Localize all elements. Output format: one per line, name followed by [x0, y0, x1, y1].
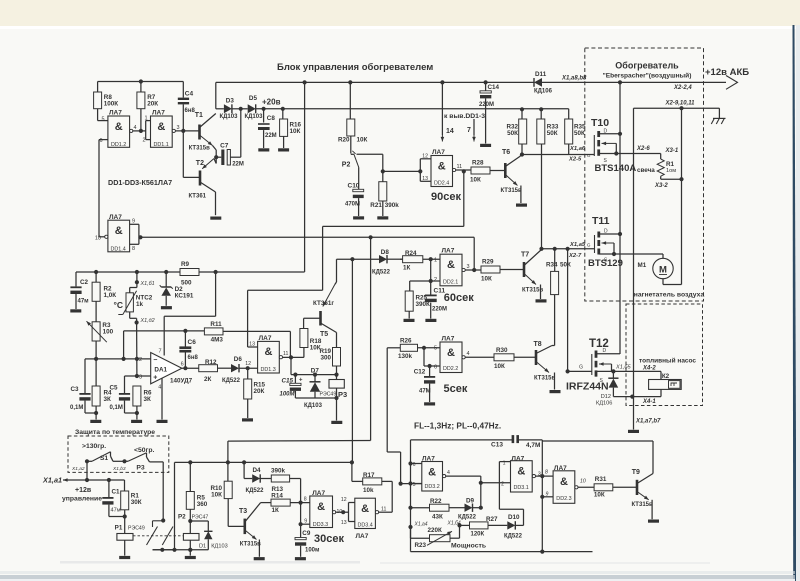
resistor R34	[554, 249, 556, 272]
wire long vertical x370	[370, 237, 372, 440]
wire T10 source line X2-6	[599, 153, 661, 155]
svg-text:1: 1	[434, 258, 437, 264]
svg-text:C3: C3	[70, 386, 79, 393]
thermistor NTC2	[136, 272, 138, 282]
svg-text:4М3: 4М3	[211, 336, 224, 343]
ground R6 C5	[131, 420, 142, 423]
wire D6 to DD1.3 pin12	[239, 367, 257, 369]
svg-text:20К: 20К	[254, 388, 265, 395]
svg-text:ЛА7: ЛА7	[356, 533, 369, 540]
wire DD1.3 output node	[283, 356, 304, 358]
heater dashed box	[585, 48, 704, 301]
svg-text:R26: R26	[400, 337, 412, 344]
svg-text:D11: D11	[535, 71, 547, 78]
svg-text:1ом: 1ом	[666, 168, 676, 174]
resistor R25	[405, 291, 413, 311]
svg-text:T8: T8	[534, 341, 542, 348]
wire long vertical x352	[351, 259, 353, 462]
svg-text:С4: С4	[185, 91, 194, 98]
svg-text:X3-1: X3-1	[665, 148, 679, 154]
resistor R19	[333, 348, 341, 367]
ground P2	[185, 556, 196, 559]
svg-text:КС191: КС191	[175, 293, 194, 300]
svg-text:13: 13	[341, 520, 347, 526]
ground C8	[258, 148, 269, 151]
svg-text:5сек: 5сек	[444, 383, 468, 395]
wire pin9 column	[300, 503, 302, 525]
svg-text:T2: T2	[196, 160, 204, 167]
svg-text:DD2.3: DD2.3	[556, 496, 571, 502]
wire x633 vertical	[633, 108, 635, 153]
svg-text:КД522: КД522	[458, 515, 477, 521]
svg-text:130k: 130k	[398, 353, 413, 360]
svg-text:X1,а4: X1,а4	[414, 522, 428, 528]
svg-text:3К: 3К	[104, 396, 112, 403]
capacitor C3	[84, 359, 86, 393]
wire S1 column	[86, 461, 88, 480]
wire node3 to T1 base	[175, 130, 199, 132]
svg-text:500: 500	[181, 280, 192, 287]
resistor R20	[349, 82, 351, 119]
capacitor C2	[75, 272, 77, 286]
capacitor C14	[485, 82, 487, 90]
wire DD3.2 out to DD3.1	[446, 475, 481, 477]
svg-text:&: &	[361, 503, 369, 515]
variable resistor R3	[95, 301, 97, 322]
capacitor C9	[300, 524, 302, 537]
svg-text:X2-2,4: X2-2,4	[673, 85, 692, 91]
svg-text:1,0К: 1,0К	[104, 292, 117, 299]
wire contact to bus	[174, 462, 176, 549]
dashed relay link P1	[133, 535, 183, 537]
ground C10	[353, 216, 364, 219]
svg-text:свеча: свеча	[637, 167, 655, 174]
svg-text:DD1.1: DD1.1	[154, 142, 169, 148]
ground x632	[628, 430, 639, 433]
svg-text:X1,а2: X1,а2	[71, 466, 85, 472]
op-amp DA1	[151, 353, 182, 384]
diode D6	[218, 367, 232, 369]
svg-text:&: &	[428, 467, 436, 479]
svg-text:К2: К2	[662, 373, 670, 380]
wire DD1.2 pin6 feedback	[98, 140, 100, 237]
resistor R14	[261, 502, 271, 504]
svg-text:+: +	[299, 377, 303, 383]
diode D4	[243, 462, 245, 478]
svg-text:нагнетатель воздуха: нагнетатель воздуха	[634, 292, 705, 299]
wire Z pin13	[247, 290, 249, 347]
svg-text:КТ315в: КТ315в	[501, 188, 522, 194]
capacitor C4	[182, 82, 184, 98]
svg-text:&: &	[317, 501, 325, 513]
svg-text:47м: 47м	[111, 508, 121, 514]
ground D2	[161, 306, 172, 309]
svg-text:11: 11	[283, 351, 288, 357]
svg-text:220М: 220М	[479, 102, 494, 108]
svg-text:R20: R20	[338, 137, 350, 144]
svg-text:20К: 20К	[147, 100, 158, 107]
wire R1 bottom to x682	[661, 178, 682, 180]
svg-text:C9: C9	[302, 530, 311, 537]
wire C15 D7 bottoms	[295, 397, 336, 399]
svg-text:R12: R12	[205, 359, 217, 366]
svg-text:D4: D4	[253, 467, 262, 474]
svg-text:IRFZ44N: IRFZ44N	[566, 381, 609, 393]
svg-text:50К: 50К	[560, 262, 571, 269]
scan noise streaks	[60, 561, 360, 564]
svg-text:1К: 1К	[272, 507, 280, 514]
svg-text:КТ315в: КТ315в	[240, 542, 261, 548]
svg-text:2: 2	[142, 138, 145, 144]
wire emitters node	[213, 146, 217, 151]
svg-text:50К: 50К	[574, 130, 585, 137]
svg-text:10К: 10К	[494, 363, 505, 370]
pump dashed box	[626, 304, 703, 406]
bottom page edge smudge	[0, 575, 795, 579]
svg-text:10k: 10k	[363, 487, 374, 494]
gate DD2.1 output to R29	[462, 268, 465, 271]
svg-text:X3-2: X3-2	[654, 183, 668, 189]
wire x682 vertical	[681, 108, 683, 284]
svg-text:22М: 22М	[265, 133, 277, 139]
svg-text:&: &	[115, 225, 123, 237]
svg-text:DD3.1: DD3.1	[514, 485, 529, 491]
svg-text:X1,а6: X1,а6	[569, 146, 586, 152]
svg-text:4,7М: 4,7М	[526, 442, 540, 449]
svg-text:10К: 10К	[481, 276, 492, 283]
svg-text:D9: D9	[466, 498, 475, 505]
svg-text:КД103: КД103	[211, 544, 227, 550]
wire R11 node line	[124, 330, 205, 332]
ground C9	[295, 557, 306, 560]
svg-text:12: 12	[341, 497, 347, 503]
svg-text:КД106: КД106	[534, 89, 553, 95]
svg-text:КТ315в: КТ315в	[189, 146, 210, 152]
svg-text:6н8: 6н8	[188, 355, 199, 361]
svg-text:С7: С7	[220, 142, 229, 149]
svg-text:DD3.3: DD3.3	[313, 522, 328, 528]
resistor R18	[300, 329, 308, 348]
resistor R10	[227, 441, 229, 462]
svg-text:D12: D12	[601, 394, 611, 400]
resistor R29	[481, 266, 500, 273]
svg-text:220М: 220М	[432, 307, 447, 313]
svg-text:G: G	[579, 365, 583, 371]
ground C2	[70, 309, 81, 312]
svg-text:+12в: +12в	[75, 487, 92, 494]
svg-text:4: 4	[447, 470, 450, 476]
svg-text:КТ315в: КТ315в	[632, 502, 653, 508]
wire R32 to T6 collector	[521, 144, 523, 155]
svg-text:КД103: КД103	[304, 403, 323, 409]
ground T7	[536, 299, 547, 302]
ground T2	[210, 217, 221, 220]
wire D10 return to pin1 loop	[516, 524, 524, 526]
svg-text:100К: 100К	[104, 100, 119, 107]
svg-text:КД522: КД522	[372, 270, 391, 276]
ground R15	[242, 418, 253, 421]
wire R26 to DD2.2 pins	[418, 347, 441, 349]
diode D12	[612, 371, 614, 378]
svg-text:220К: 220К	[428, 527, 443, 534]
relay coil P3	[336, 375, 338, 380]
svg-text:D: D	[604, 129, 608, 135]
svg-text:390k: 390k	[385, 202, 400, 209]
resistor R35	[568, 109, 570, 119]
svg-text:DD2.2: DD2.2	[443, 366, 458, 372]
relay contact P2	[350, 136, 352, 154]
svg-text:90сек: 90сек	[431, 191, 461, 203]
svg-text:М: М	[659, 265, 667, 276]
wire T9 collector to C13 node	[542, 440, 653, 442]
wire R13 to pin8 column	[290, 478, 301, 480]
wire C13 right column	[541, 440, 543, 552]
resistor R16	[282, 109, 284, 119]
svg-text:DD1.2: DD1.2	[111, 142, 126, 148]
capacitor C11	[430, 281, 432, 295]
wire R10 to T3 base	[227, 499, 229, 527]
wire R11 to output node	[223, 330, 290, 332]
svg-text:7: 7	[467, 127, 471, 134]
resistor R32	[521, 109, 523, 119]
svg-text:3К: 3К	[144, 396, 152, 403]
svg-text:Р1: Р1	[115, 525, 123, 532]
svg-text:D8: D8	[381, 249, 390, 256]
svg-text:R1: R1	[666, 161, 675, 168]
wire bottom bus	[410, 550, 412, 551]
wire D8 row	[337, 258, 380, 260]
svg-text:3: 3	[139, 374, 142, 380]
svg-text:10К: 10К	[357, 137, 368, 144]
svg-text:4: 4	[158, 384, 161, 390]
svg-text:7: 7	[158, 349, 161, 355]
svg-text:C12: C12	[414, 369, 426, 376]
resistor R33	[540, 109, 542, 119]
resistor R7	[139, 79, 143, 83]
wire output node to timer caps	[290, 357, 292, 374]
svg-text:D6: D6	[234, 356, 243, 363]
svg-text:5: 5	[101, 116, 104, 122]
ground R4 C3	[95, 413, 97, 420]
svg-text:Р3: Р3	[338, 390, 347, 399]
resistor R13	[260, 478, 271, 480]
chassis ground symbol	[718, 108, 720, 118]
wire +20v line	[256, 108, 569, 110]
resistor R26	[387, 347, 400, 349]
svg-text:8: 8	[545, 470, 548, 476]
svg-text:R14: R14	[271, 492, 283, 499]
svg-text:D10: D10	[508, 514, 520, 521]
svg-text:DD1.3: DD1.3	[261, 367, 276, 373]
svg-text:30сек: 30сек	[314, 533, 344, 545]
svg-text:300: 300	[320, 355, 331, 362]
ground P1	[119, 556, 130, 559]
svg-text:DD3.4: DD3.4	[358, 523, 373, 529]
svg-text:X2-5: X2-5	[568, 157, 582, 163]
svg-text:C2: C2	[80, 279, 89, 286]
transistor T6	[490, 170, 505, 172]
svg-text:50К: 50К	[547, 130, 558, 137]
resistor R2	[95, 272, 97, 282]
svg-text:X1,б5: X1,б5	[615, 365, 632, 371]
wire DA1 inputs	[96, 358, 151, 360]
svg-text:РЭС49: РЭС49	[320, 391, 337, 397]
svg-text:22М: 22М	[232, 161, 244, 167]
op-amp DA1 pin7	[163, 331, 165, 356]
svg-text:С15: С15	[282, 377, 294, 384]
svg-text:&: &	[157, 121, 165, 133]
svg-text:С6: С6	[188, 339, 197, 346]
wire top link to x370	[228, 440, 371, 443]
resistor R15	[247, 368, 249, 379]
resistor R1 control	[124, 480, 126, 491]
svg-text:D: D	[604, 229, 608, 235]
svg-text:°С: °С	[114, 300, 124, 310]
relay contact P1 main	[152, 521, 154, 527]
resistor R5	[189, 462, 191, 491]
svg-text:+20в: +20в	[262, 98, 281, 107]
svg-text:T1: T1	[195, 112, 203, 119]
svg-text:T9: T9	[632, 469, 640, 476]
svg-text:X1,b3: X1,b3	[112, 466, 126, 472]
svg-text:Обогреватель: Обогреватель	[615, 61, 679, 71]
svg-text:РЭС47: РЭС47	[192, 515, 209, 521]
wire pin2 to R25	[410, 280, 431, 282]
wire contact out	[153, 549, 209, 551]
zener D2 KC191	[165, 272, 167, 287]
svg-text:R29: R29	[482, 259, 494, 266]
svg-text:R11: R11	[210, 321, 222, 328]
transistor T8	[514, 356, 536, 358]
svg-text:14: 14	[446, 128, 454, 135]
svg-text:Р2: Р2	[342, 162, 351, 169]
wire rail to +12 arrow	[542, 81, 726, 83]
svg-text:5: 5	[434, 346, 437, 352]
svg-text:&: &	[264, 346, 272, 358]
ground C12	[424, 402, 435, 405]
svg-text:ЛА7: ЛА7	[442, 247, 455, 254]
svg-text:4: 4	[134, 125, 137, 131]
op-amp pin4 ground	[161, 378, 163, 420]
svg-text:10К: 10К	[470, 177, 481, 184]
diode D8	[379, 255, 387, 263]
wire X4-1 return	[613, 396, 661, 398]
svg-text:КД522: КД522	[222, 378, 241, 384]
wire DD3.1 pin1 loop	[499, 461, 510, 463]
wire R24 to pin1 and pin2	[423, 258, 440, 260]
svg-text:C5: C5	[109, 385, 118, 392]
svg-text:D1: D1	[199, 544, 206, 550]
capacitor C8	[263, 109, 265, 123]
svg-text:РЭС49: РЭС49	[128, 526, 145, 532]
wire drain bus x620	[619, 82, 621, 354]
svg-text:управление: управление	[62, 496, 102, 503]
svg-text:X4-2: X4-2	[642, 366, 656, 372]
svg-text:Мощность: Мощность	[451, 543, 486, 550]
svg-text:КД522: КД522	[504, 534, 523, 540]
wire R14 to pin8	[290, 502, 310, 504]
svg-text:C14: C14	[488, 84, 500, 91]
svg-text:R23: R23	[415, 542, 427, 549]
wire DA1 output	[183, 366, 187, 370]
wire X2-9,10,11 line	[634, 107, 720, 109]
svg-text:"Eberspacher"(воздушный): "Eberspacher"(воздушный)	[603, 72, 692, 80]
svg-text:DD2.1: DD2.1	[443, 280, 458, 286]
svg-text:R21: R21	[370, 202, 382, 209]
svg-text:X2-7: X2-7	[568, 253, 582, 259]
svg-text:Р2: Р2	[178, 514, 186, 521]
svg-text:&: &	[517, 466, 525, 478]
wire DD3.2 input bus	[410, 440, 412, 550]
svg-text:50К: 50К	[507, 130, 518, 137]
svg-text:&: &	[447, 347, 455, 359]
svg-text:120К: 120К	[471, 532, 485, 538]
resistor R8	[97, 82, 99, 93]
wire R9 node stair to pin7	[215, 272, 217, 316]
wire feedback drop x304	[304, 82, 306, 271]
svg-text:>130гр.: >130гр.	[82, 443, 106, 450]
wire DD1.4 output bus	[141, 236, 475, 238]
capacitor C5	[124, 376, 126, 393]
wire T10 gate feed X1,a6	[521, 154, 595, 156]
gate DD3.4	[355, 498, 376, 528]
ground R21	[377, 216, 388, 219]
resistor R27	[460, 524, 470, 526]
resistor R6	[133, 386, 141, 406]
arrow +12в АКБ	[726, 76, 738, 90]
svg-text:11: 11	[457, 164, 463, 170]
wire +12 управление	[63, 479, 125, 481]
svg-text:9: 9	[132, 219, 135, 225]
diode D1	[190, 520, 208, 522]
svg-text:X1,а7,b7: X1,а7,b7	[635, 419, 661, 425]
svg-text:2: 2	[139, 357, 142, 363]
svg-text:&: &	[115, 121, 123, 133]
capacitor C6	[184, 331, 186, 347]
wire DD power feed pin14	[441, 82, 443, 135]
svg-text:D: D	[603, 348, 607, 354]
svg-text:&: &	[447, 259, 455, 271]
svg-text:X1,а8,b8: X1,а8,b8	[561, 75, 587, 81]
svg-text:BTS140A: BTS140A	[595, 163, 637, 174]
svg-text:T7: T7	[521, 252, 529, 259]
svg-text:47М: 47М	[419, 388, 431, 394]
resistor R12	[199, 365, 218, 372]
wire C7 to D3-D5 node	[240, 109, 242, 157]
svg-text:G: G	[587, 243, 591, 248]
diode D11	[534, 78, 542, 87]
svg-text:3: 3	[177, 125, 180, 131]
svg-text:Х1,д2: Х1,д2	[140, 318, 155, 324]
capacitor C13	[411, 439, 513, 441]
wire DD3.3 out to DD3.4	[336, 511, 349, 513]
svg-text:1К: 1К	[403, 265, 411, 272]
svg-text:Т11: Т11	[592, 215, 610, 227]
wire x632 ground column	[633, 154, 635, 430]
svg-text:6: 6	[181, 361, 184, 367]
resistor R30	[494, 354, 514, 361]
svg-text:1k: 1k	[136, 301, 144, 308]
svg-text:47м: 47м	[78, 299, 90, 305]
diode D7	[314, 375, 316, 382]
svg-text:C13: C13	[491, 442, 503, 449]
capacitor C1	[108, 480, 110, 497]
wire P3 to main contact	[162, 462, 164, 521]
resistor R31	[578, 486, 594, 488]
svg-text:Защита по температуре: Защита по температуре	[75, 429, 155, 436]
svg-text:D5: D5	[249, 95, 258, 102]
wire sensor node	[76, 271, 180, 273]
